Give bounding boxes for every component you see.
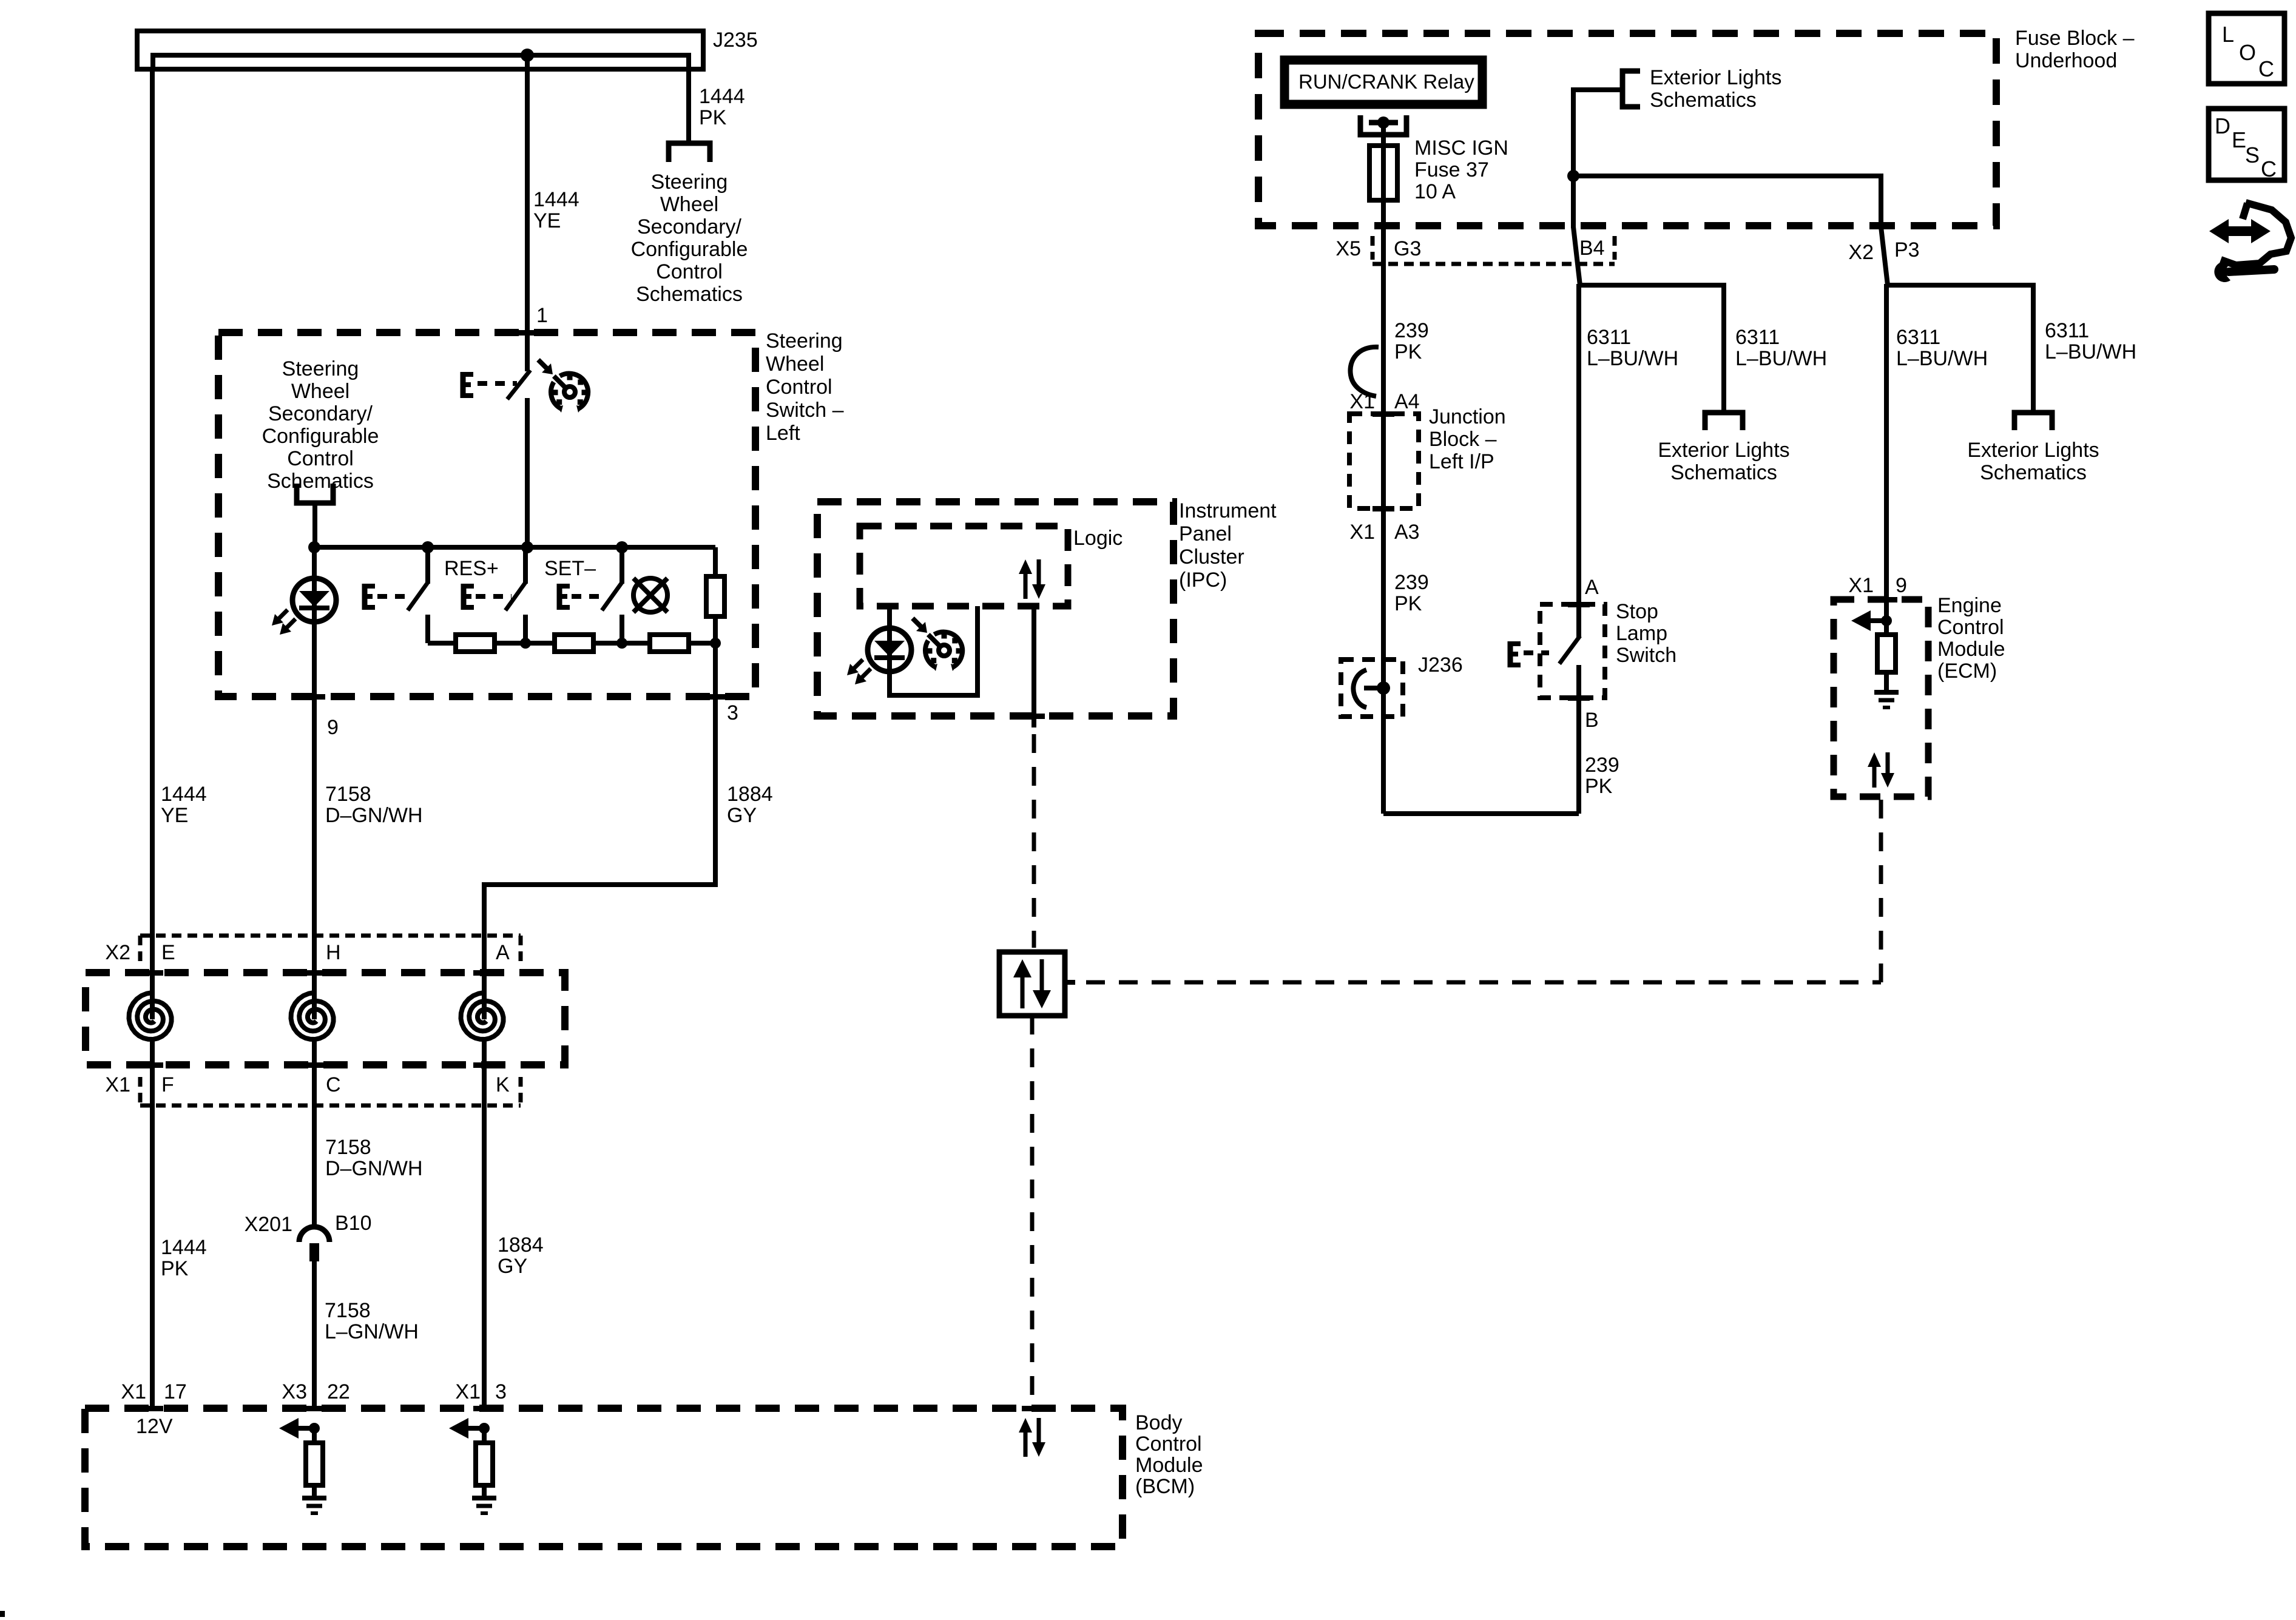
wire branch to exterior lights connector 2 bbox=[1579, 285, 1724, 413]
Logic serial up/down arrows bbox=[1024, 572, 1028, 599]
dashed box Stop Lamp Switch bbox=[1540, 604, 1605, 698]
wire switch output to internal bus bbox=[525, 398, 530, 547]
coil spiral 3 bbox=[461, 993, 504, 1039]
svg-text:Panel: Panel bbox=[1179, 522, 1232, 545]
bottom wire joining stop lamp B to junction block leg bbox=[1383, 811, 1579, 816]
connector X2 left stub bbox=[138, 936, 143, 964]
icon box LOC bbox=[2209, 13, 2284, 84]
connector fork Exterior Lights Schematics (mid left) bbox=[1705, 413, 1743, 430]
icon box DESC bbox=[2209, 109, 2284, 180]
switch SET- bbox=[620, 550, 624, 584]
svg-text:C: C bbox=[2258, 56, 2274, 81]
stop lamp switch E symbol bbox=[1508, 641, 1513, 667]
cruise control gauge icon bbox=[551, 382, 561, 409]
svg-text:Control: Control bbox=[766, 376, 832, 399]
resistor ladder row bbox=[428, 641, 715, 646]
svg-text:Left I/P: Left I/P bbox=[1429, 450, 1494, 473]
switch cruise on/off: blade bbox=[507, 370, 530, 399]
svg-text:12V: 12V bbox=[136, 1415, 173, 1438]
svg-text:9: 9 bbox=[327, 716, 339, 739]
svg-text:X2: X2 bbox=[1848, 241, 1874, 264]
svg-text:O: O bbox=[2239, 40, 2256, 65]
svg-text:3: 3 bbox=[727, 701, 738, 724]
svg-text:Wheel: Wheel bbox=[291, 380, 349, 403]
svg-text:9: 9 bbox=[1896, 574, 1907, 597]
switch S1 E symbol bbox=[362, 584, 368, 610]
svg-text:Exterior Lights: Exterior Lights bbox=[1658, 439, 1789, 462]
connector X5 left stub bbox=[1371, 236, 1375, 260]
wire left column clockspring to BCM pin X1-17 bbox=[150, 1039, 155, 1408]
svg-text:A3: A3 bbox=[1394, 521, 1420, 544]
svg-text:E: E bbox=[161, 941, 175, 964]
serial data gateway right stub bbox=[1065, 980, 1075, 985]
svg-text:239: 239 bbox=[1394, 571, 1429, 594]
connector X1 right stub bbox=[519, 1077, 523, 1105]
connector fork inside switch box bbox=[297, 484, 333, 503]
svg-text:6311: 6311 bbox=[1587, 326, 1631, 349]
bus bar J235 inner bus bbox=[153, 55, 689, 69]
dashed box Junction Block - Left I/P bbox=[1349, 414, 1419, 508]
svg-text:Control: Control bbox=[1135, 1433, 1202, 1456]
svg-text:1884: 1884 bbox=[727, 783, 773, 806]
connector fork to Steering Wheel Secondary schematics (top) bbox=[669, 143, 710, 162]
svg-text:(BCM): (BCM) bbox=[1135, 1475, 1195, 1498]
wire 6311 L-BU/WH from B4 bbox=[1576, 284, 1581, 604]
ECM wire to resistor bbox=[1884, 599, 1889, 635]
svg-text:Control: Control bbox=[287, 447, 354, 470]
icon car with arrow and wrench bbox=[2221, 203, 2291, 265]
svg-text:YE: YE bbox=[533, 209, 561, 232]
node J235 junction dot on bus bbox=[521, 49, 534, 62]
svg-text:X2: X2 bbox=[105, 941, 130, 964]
dashed box Body Control Module (BCM) bbox=[85, 1408, 1123, 1547]
inline connector X201 pin B10 bbox=[299, 1227, 329, 1242]
wire 7158 D-GN/WH from pin 9 to clockspring bbox=[312, 697, 317, 1019]
pin tick 1 bbox=[516, 330, 538, 336]
svg-text:Control: Control bbox=[1937, 616, 2004, 639]
wire 1444 PK from bus bbox=[686, 69, 691, 143]
serial data gateway box bbox=[999, 952, 1065, 1016]
wire B4 slant bbox=[1573, 227, 1580, 285]
svg-text:Configurable: Configurable bbox=[631, 238, 748, 261]
pin tick X1-A4 bbox=[1373, 411, 1394, 417]
IPC LED indicator bbox=[868, 628, 911, 672]
IPC gauge icon bbox=[925, 641, 935, 667]
svg-text:Schematics: Schematics bbox=[1980, 461, 2087, 484]
svg-text:1444: 1444 bbox=[533, 188, 579, 211]
svg-text:PK: PK bbox=[1394, 340, 1422, 363]
dashed box Engine Control Module (ECM) bbox=[1834, 599, 1928, 797]
pin tick X1-17 bbox=[141, 1406, 163, 1411]
svg-text:(ECM): (ECM) bbox=[1937, 660, 1997, 683]
svg-text:G3: G3 bbox=[1394, 237, 1421, 260]
connector X1 left stub bbox=[138, 1077, 143, 1105]
svg-text:Instrument: Instrument bbox=[1179, 499, 1277, 522]
wire 239 PK from stop lamp B bbox=[1576, 698, 1581, 814]
bus bar J235 outer rectangle bbox=[137, 31, 703, 69]
svg-text:22: 22 bbox=[327, 1380, 350, 1403]
svg-text:X1: X1 bbox=[455, 1380, 481, 1403]
IPC serial data line (solid) bbox=[1032, 606, 1036, 727]
ECM serial up/down arrows bbox=[1872, 764, 1877, 788]
svg-text:Fuse Block –: Fuse Block – bbox=[2015, 27, 2135, 50]
switch cruise on/off: dashed actuator line bbox=[478, 381, 517, 386]
internal bus of switch bbox=[314, 545, 715, 550]
stop lamp switch lower contact bbox=[1576, 665, 1581, 698]
svg-text:J235: J235 bbox=[713, 29, 758, 52]
LED indicator in switch bbox=[312, 547, 317, 697]
connector bracket Exterior Lights Schematics (top) bbox=[1622, 71, 1640, 107]
wire from fork to internal bus bbox=[312, 503, 317, 547]
connector fork Exterior Lights Schematics (right) bbox=[2014, 413, 2052, 430]
connector X2 dashed line bbox=[140, 934, 521, 938]
svg-text:RUN/CRANK Relay: RUN/CRANK Relay bbox=[1298, 70, 1474, 93]
BCM input arrow + pulldown resistor + ground (pin 3) bbox=[468, 1426, 484, 1431]
svg-text:Logic: Logic bbox=[1073, 527, 1123, 550]
splice J236 clip curl bbox=[1364, 686, 1383, 690]
connector X5 right stub (B4) bbox=[1613, 236, 1617, 260]
svg-text:Engine: Engine bbox=[1937, 594, 2002, 617]
svg-text:H: H bbox=[326, 941, 341, 964]
svg-text:1444: 1444 bbox=[161, 1236, 207, 1259]
icon wrench bbox=[2214, 262, 2230, 282]
svg-text:D: D bbox=[2215, 113, 2230, 138]
svg-text:Lamp: Lamp bbox=[1616, 622, 1667, 645]
svg-text:Configurable: Configurable bbox=[262, 425, 379, 448]
svg-text:Junction: Junction bbox=[1429, 405, 1506, 428]
svg-text:A4: A4 bbox=[1394, 390, 1420, 413]
svg-text:L–BU/WH: L–BU/WH bbox=[2045, 340, 2136, 363]
IPC LED indicator stub bbox=[887, 606, 892, 672]
pin tick B bbox=[1568, 695, 1590, 701]
switch cruise on/off: E symbol bbox=[461, 372, 466, 398]
svg-text:X1: X1 bbox=[121, 1380, 146, 1403]
svg-text:A: A bbox=[1585, 576, 1599, 599]
switch S1 (unlabeled) bbox=[425, 550, 430, 584]
svg-text:Cluster: Cluster bbox=[1179, 545, 1244, 569]
svg-text:Schematics: Schematics bbox=[267, 470, 374, 493]
svg-text:L–BU/WH: L–BU/WH bbox=[1587, 347, 1678, 370]
pin tick 9 bbox=[303, 694, 325, 700]
node dots on internal bus bbox=[308, 541, 320, 553]
svg-text:Block –: Block – bbox=[1429, 428, 1497, 451]
switch SET- E symbol bbox=[557, 584, 562, 610]
pin ticks at clockspring box top bbox=[141, 970, 163, 976]
svg-text:Wheel: Wheel bbox=[660, 193, 718, 216]
svg-text:Schematics: Schematics bbox=[636, 283, 743, 306]
svg-text:D–GN/WH: D–GN/WH bbox=[325, 804, 423, 827]
svg-text:Wheel: Wheel bbox=[766, 353, 824, 376]
svg-text:7158: 7158 bbox=[325, 1136, 371, 1159]
serial data tick at BCM bbox=[1022, 1406, 1044, 1411]
svg-text:RES+: RES+ bbox=[444, 557, 499, 580]
svg-text:C: C bbox=[2261, 157, 2277, 181]
wire junction to P3 corner bbox=[1573, 176, 1881, 228]
svg-text:239: 239 bbox=[1394, 319, 1429, 342]
svg-text:B4: B4 bbox=[1579, 237, 1605, 260]
svg-text:Switch –: Switch – bbox=[766, 399, 844, 422]
svg-text:(IPC): (IPC) bbox=[1179, 569, 1227, 592]
svg-text:Stop: Stop bbox=[1616, 600, 1658, 623]
svg-text:C: C bbox=[326, 1073, 341, 1096]
wire junction down to B4 bbox=[1571, 176, 1576, 228]
serial data dashed gateway to BCM bbox=[1030, 1016, 1035, 1408]
svg-text:S: S bbox=[2245, 143, 2260, 167]
svg-text:Switch: Switch bbox=[1616, 644, 1676, 667]
serial data dashed IPC to gateway bbox=[1032, 734, 1036, 948]
svg-text:J236: J236 bbox=[1418, 653, 1463, 677]
wire 239 PK from G3 down bbox=[1381, 280, 1386, 814]
svg-text:GY: GY bbox=[498, 1255, 527, 1278]
wire 1444 YE left column from bus to clockspring bbox=[150, 69, 155, 1019]
pin tick X3-22 bbox=[303, 1406, 325, 1411]
svg-text:7158: 7158 bbox=[325, 783, 371, 806]
ECM pulldown resistor bbox=[1877, 635, 1896, 672]
svg-text:1444: 1444 bbox=[161, 783, 207, 806]
connector X1 dashed line bbox=[140, 1104, 521, 1108]
relay box RUN/CRANK Relay bbox=[1285, 60, 1482, 104]
svg-text:Body: Body bbox=[1135, 1411, 1183, 1434]
svg-text:X1: X1 bbox=[1349, 521, 1375, 544]
wire 7158 D-GN/WH clockspring to X201 bbox=[312, 1039, 317, 1227]
resistor R1 bbox=[456, 635, 495, 652]
dashed box splice J236 bbox=[1341, 660, 1403, 717]
svg-text:17: 17 bbox=[164, 1380, 187, 1403]
BCM input arrow + pulldown resistor + ground (pin 22) bbox=[299, 1426, 314, 1431]
svg-text:Steering: Steering bbox=[651, 170, 728, 194]
svg-text:10 A: 10 A bbox=[1414, 180, 1456, 203]
svg-text:P3: P3 bbox=[1894, 238, 1920, 262]
wire P3 slant bbox=[1881, 227, 1888, 285]
svg-text:Fuse 37: Fuse 37 bbox=[1414, 158, 1489, 181]
node dots on resistor row bbox=[520, 638, 531, 649]
dashed box clockspring coil bbox=[86, 973, 565, 1065]
svg-text:6311: 6311 bbox=[1735, 326, 1780, 349]
fuse MISC IGN Fuse 37 10A bbox=[1381, 146, 1386, 200]
pin tick X1-A3 bbox=[1373, 506, 1394, 511]
svg-text:L–BU/WH: L–BU/WH bbox=[1735, 347, 1827, 370]
svg-text:D–GN/WH: D–GN/WH bbox=[325, 1157, 423, 1180]
svg-text:X201: X201 bbox=[245, 1213, 292, 1236]
svg-text:PK: PK bbox=[161, 1257, 189, 1280]
dashed box Instrument Panel Cluster (IPC) bbox=[817, 502, 1173, 716]
svg-text:PK: PK bbox=[699, 106, 727, 129]
svg-text:B10: B10 bbox=[335, 1212, 372, 1235]
clip curl at wire bbox=[1350, 347, 1379, 396]
relay output clip connector bbox=[1360, 115, 1406, 135]
svg-text:239: 239 bbox=[1585, 754, 1619, 777]
stop lamp switch blade bbox=[1559, 636, 1580, 664]
svg-text:Left: Left bbox=[766, 422, 800, 445]
svg-text:PK: PK bbox=[1394, 592, 1422, 615]
wire 1884 GY clockspring to BCM bbox=[482, 1039, 487, 1408]
pin tick X1-9 bbox=[1876, 597, 1897, 602]
pin tick X1-3 bbox=[473, 1406, 495, 1411]
serial data dashed vertical to ECM bbox=[1879, 797, 1883, 982]
stop lamp switch wire in bbox=[1576, 604, 1581, 637]
page mark dot bottom-left bbox=[0, 1611, 5, 1617]
svg-text:Exterior Lights: Exterior Lights bbox=[1967, 439, 2099, 462]
icon double arrow bbox=[2209, 219, 2271, 243]
pin ticks at clockspring box bottom bbox=[141, 1062, 163, 1068]
svg-text:1: 1 bbox=[536, 304, 548, 327]
dashed box Fuse Block - Underhood bbox=[1258, 33, 1996, 226]
wire from bracket to junction bbox=[1573, 90, 1622, 176]
svg-text:1444: 1444 bbox=[699, 85, 745, 108]
pin tick A bbox=[1568, 602, 1590, 607]
svg-text:X3: X3 bbox=[282, 1380, 307, 1403]
node junction dot in fuse box bbox=[1567, 170, 1579, 182]
svg-text:6311: 6311 bbox=[1896, 326, 1940, 349]
svg-text:Secondary/: Secondary/ bbox=[637, 215, 742, 238]
svg-text:Schematics: Schematics bbox=[1670, 461, 1777, 484]
resistor R2 bbox=[555, 635, 593, 652]
wire 1884 GY from pin 3 bbox=[484, 643, 715, 1019]
svg-text:GY: GY bbox=[727, 804, 757, 827]
BCM serial data up/down arrows bbox=[1024, 1430, 1028, 1457]
svg-text:Steering: Steering bbox=[282, 357, 359, 380]
svg-text:Module: Module bbox=[1937, 638, 2005, 661]
wire 1444 YE from bus junction to switch pin 1 bbox=[525, 55, 530, 371]
svg-text:Module: Module bbox=[1135, 1454, 1203, 1477]
svg-text:Secondary/: Secondary/ bbox=[268, 402, 373, 425]
svg-text:L: L bbox=[2222, 22, 2234, 47]
svg-text:X1: X1 bbox=[1848, 574, 1874, 597]
svg-text:Schematics: Schematics bbox=[1650, 89, 1757, 112]
svg-text:1884: 1884 bbox=[498, 1234, 544, 1257]
svg-text:3: 3 bbox=[495, 1380, 507, 1403]
svg-text:X1: X1 bbox=[1349, 390, 1375, 413]
svg-text:B: B bbox=[1585, 709, 1599, 732]
pin tick 3 bbox=[704, 694, 726, 700]
wire 7158 L-GN/WH X201 to BCM bbox=[312, 1261, 317, 1408]
wire relay to fuse bbox=[1381, 123, 1386, 146]
switch RES+ bbox=[523, 550, 528, 584]
wire fuse output to X5-G3 bbox=[1381, 200, 1386, 280]
resistor (right, vertical) in switch bbox=[713, 547, 718, 576]
coil spiral 2 bbox=[291, 993, 334, 1039]
gateway up/down arrows bbox=[1021, 975, 1025, 1008]
IPC LED loop wire bbox=[890, 606, 977, 695]
svg-text:A: A bbox=[496, 941, 510, 964]
svg-text:Steering: Steering bbox=[766, 329, 843, 353]
coil spiral 1 bbox=[129, 993, 172, 1039]
ECM input arrow bbox=[1871, 618, 1886, 623]
serial tick at IPC boundary bbox=[1023, 714, 1045, 719]
resistor R3 bbox=[650, 635, 689, 652]
svg-text:MISC IGN: MISC IGN bbox=[1414, 137, 1508, 160]
svg-text:6311: 6311 bbox=[2045, 319, 2089, 342]
svg-text:X5: X5 bbox=[1335, 237, 1361, 260]
svg-text:YE: YE bbox=[161, 804, 188, 827]
svg-text:Exterior Lights: Exterior Lights bbox=[1650, 66, 1781, 89]
dashed box Steering Wheel Control Switch - Left bbox=[218, 332, 755, 697]
svg-text:F: F bbox=[161, 1073, 174, 1096]
ECM ground bbox=[1884, 672, 1889, 692]
svg-text:L–GN/WH: L–GN/WH bbox=[325, 1320, 419, 1343]
svg-text:E: E bbox=[2232, 127, 2246, 152]
svg-text:Underhood: Underhood bbox=[2015, 49, 2117, 72]
wire branch to exterior lights connector 4 bbox=[1886, 285, 2033, 413]
lamp symbol (illumination) bbox=[633, 578, 667, 612]
serial data dashed gateway to ECM (horizontal) bbox=[1086, 980, 1881, 985]
connector X2 right stub bbox=[519, 936, 523, 964]
svg-text:7158: 7158 bbox=[325, 1299, 371, 1322]
splice J236 dot bbox=[1377, 681, 1390, 695]
svg-text:PK: PK bbox=[1585, 775, 1613, 798]
svg-text:X1: X1 bbox=[105, 1073, 130, 1096]
svg-text:L–BU/WH: L–BU/WH bbox=[1896, 347, 1988, 370]
dashed box Logic bbox=[860, 526, 1068, 606]
svg-text:SET–: SET– bbox=[544, 557, 596, 580]
svg-text:Control: Control bbox=[656, 260, 723, 283]
wire 6311 L-BU/WH from P3 bbox=[1884, 284, 1889, 599]
svg-text:K: K bbox=[496, 1073, 510, 1096]
connector X5 dashed line to B4 bbox=[1373, 262, 1615, 266]
switch RES+ E symbol bbox=[461, 584, 467, 610]
